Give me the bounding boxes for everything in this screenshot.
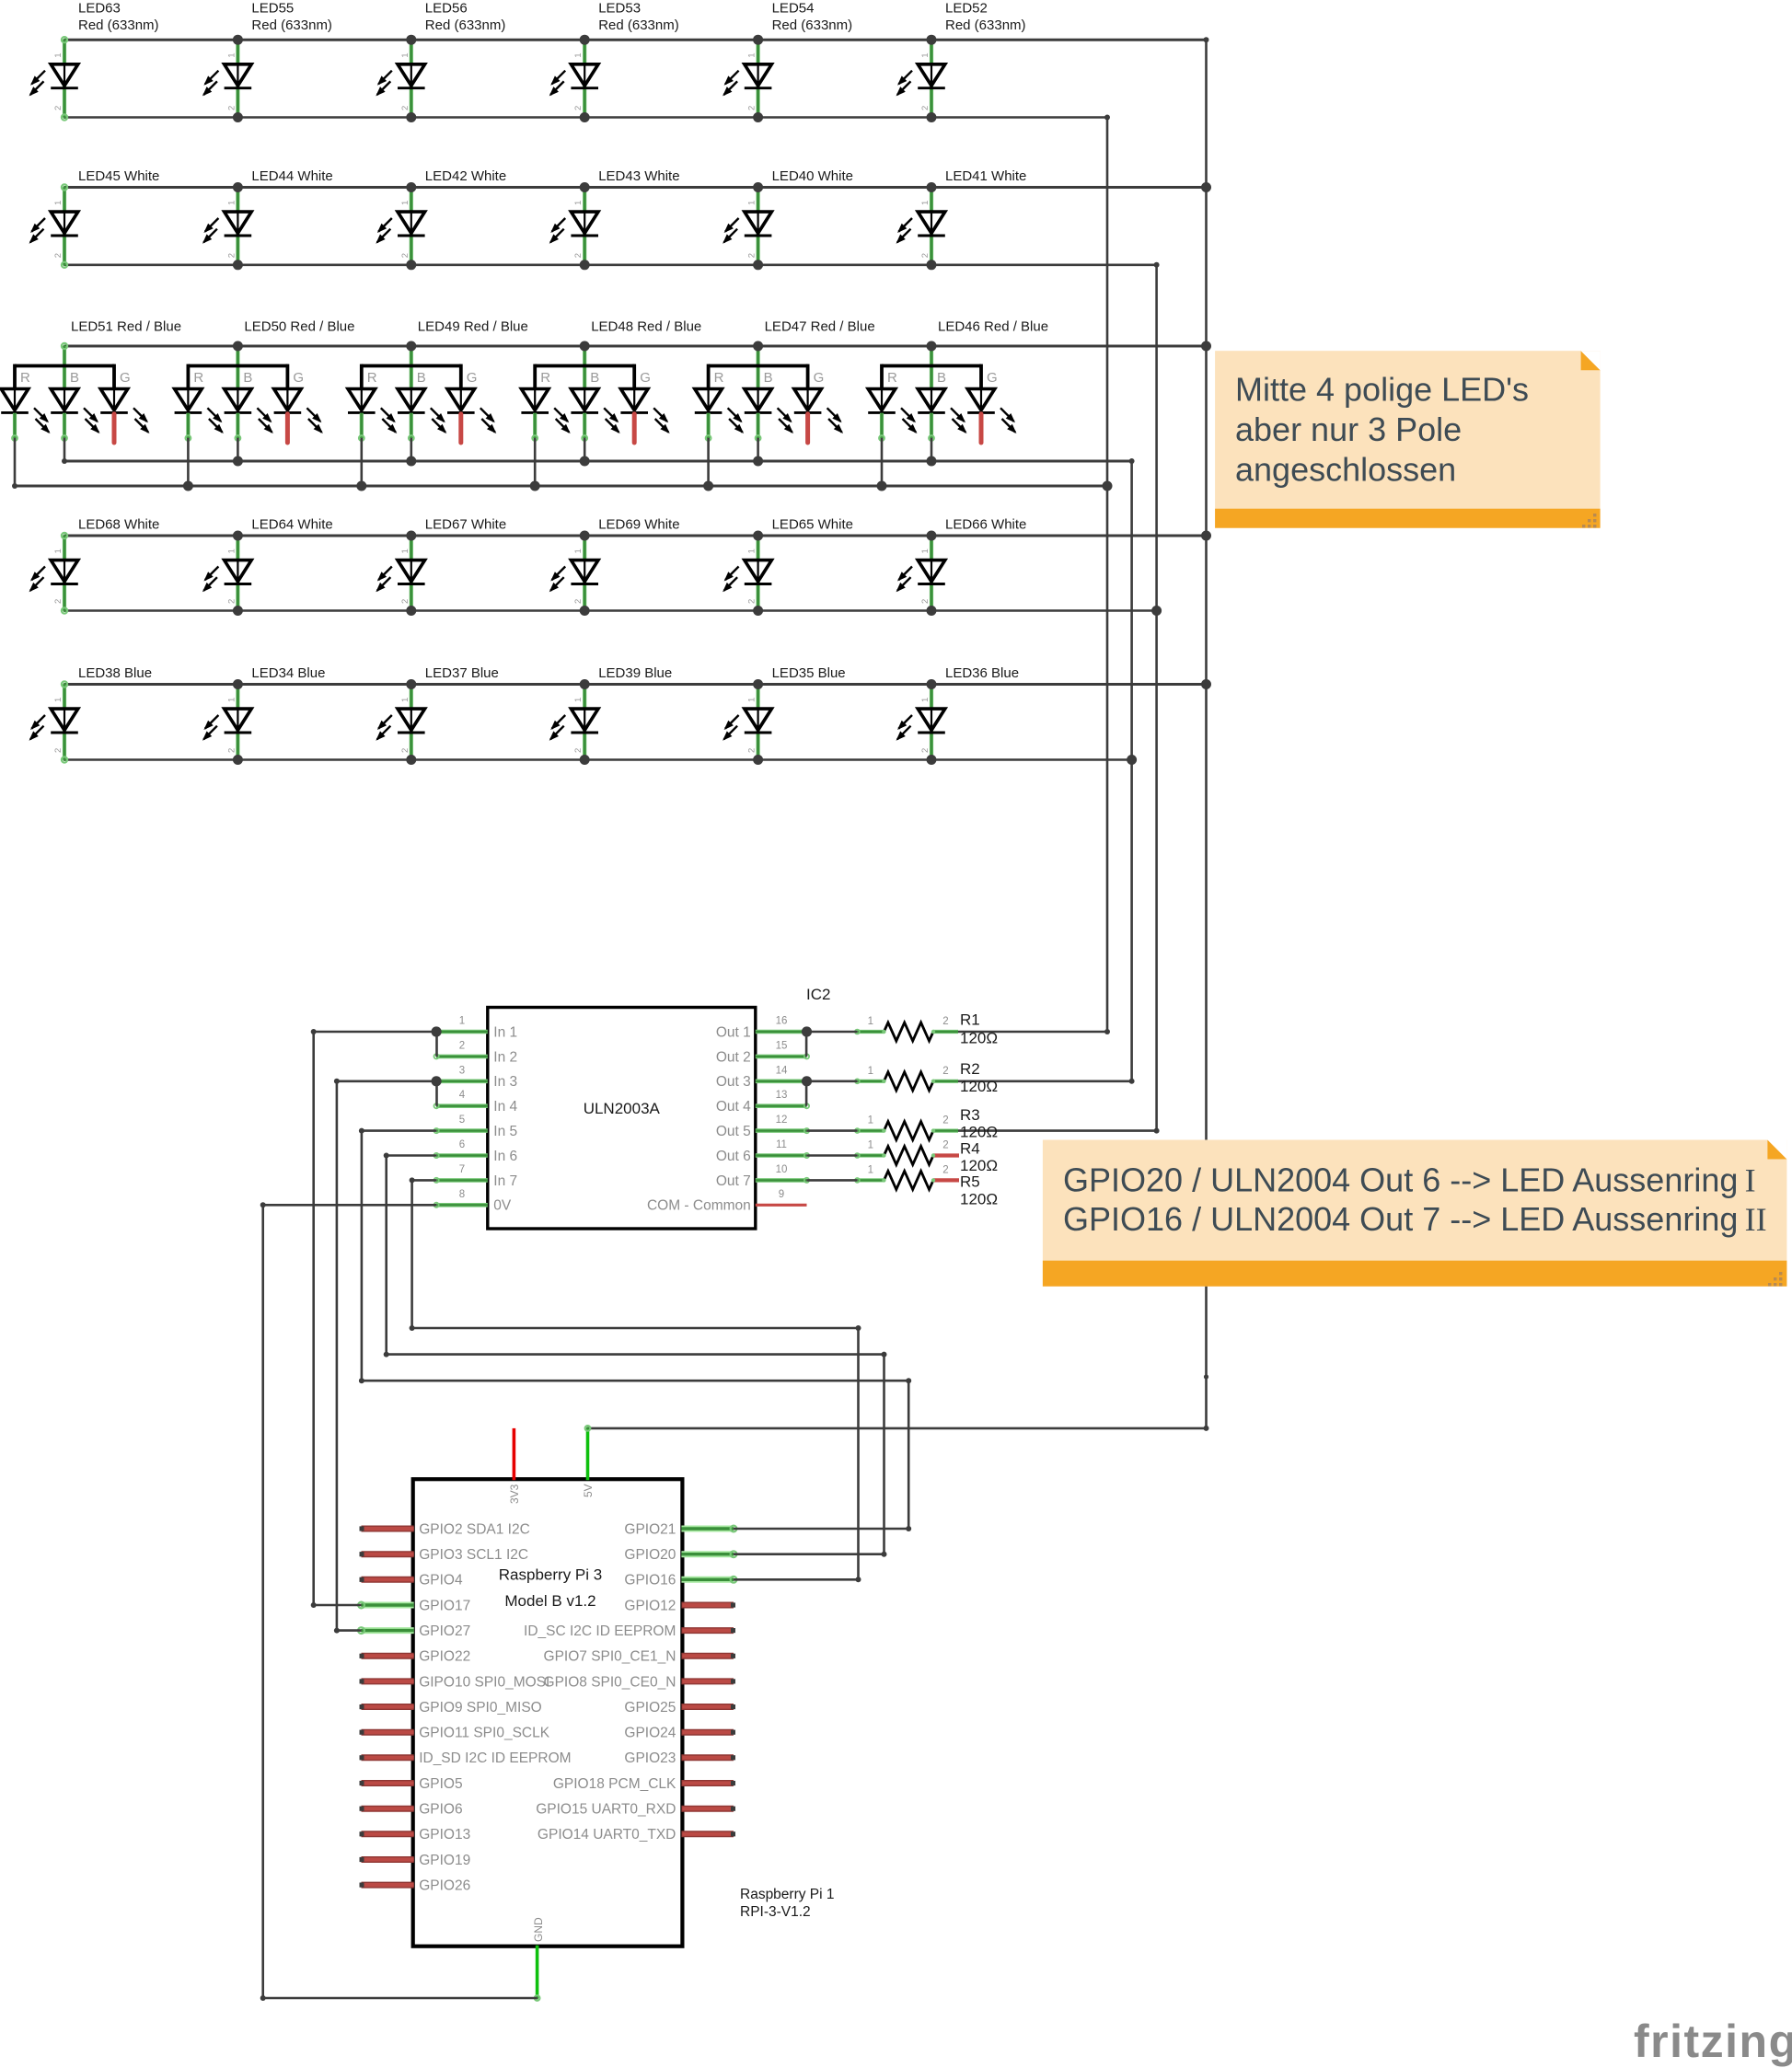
junction LED53 anode / top bus <box>580 35 590 45</box>
svg-text:GPIO2 SDA1 I2C: GPIO2 SDA1 I2C <box>419 1521 530 1537</box>
svg-text:IC2: IC2 <box>806 986 830 1003</box>
svg-text:8: 8 <box>459 1189 465 1200</box>
resistor R5 120Ω <box>855 1171 959 1189</box>
node bend In6 wire <box>882 1552 887 1557</box>
pin RPi GPIO25 leg (unrouted) <box>681 1704 734 1710</box>
wire In1 to GPIO17 <box>314 1031 436 1034</box>
svg-text:1: 1 <box>400 52 410 57</box>
svg-text:G: G <box>293 370 304 386</box>
pin 5V leg <box>586 1428 590 1480</box>
node bend 0V wire b <box>260 1995 266 2001</box>
svg-text:ULN2003A: ULN2003A <box>584 1100 661 1117</box>
junction blue net / row5 bottom bus <box>1127 755 1137 765</box>
svg-text:LED52: LED52 <box>945 1 988 17</box>
junction LED37 anode / top bus <box>406 679 416 689</box>
node bend In5 wire <box>906 1378 911 1383</box>
note 2 (GPIO20/GPIO16 mapping) <box>1043 1140 1787 1287</box>
svg-text:LED69 White: LED69 White <box>598 517 679 533</box>
pin RPi GPIO11 SPI0_SCLK leg (unrouted) <box>362 1729 414 1736</box>
svg-text:GND: GND <box>532 1917 545 1942</box>
svg-text:Out 1: Out 1 <box>716 1024 751 1040</box>
junction LED35 cathode / bottom bus <box>753 755 763 765</box>
svg-text:LED54: LED54 <box>772 1 815 17</box>
LED LED64 White <box>202 536 251 611</box>
svg-text:1: 1 <box>573 698 584 702</box>
op-amp IC2 ULN2003A body <box>488 1008 756 1230</box>
svg-text:In 2: In 2 <box>493 1049 517 1065</box>
junction LED42 cathode / bottom bus <box>406 260 416 270</box>
svg-text:Red (633nm): Red (633nm) <box>598 17 679 33</box>
pin IC2 In 6 leg <box>436 1153 488 1158</box>
svg-text:2: 2 <box>400 599 410 604</box>
pin RPi GPIO20 leg <box>681 1551 734 1557</box>
wire row5 top bus <box>64 683 1207 686</box>
LED LED38 Blue <box>29 681 78 762</box>
svg-text:GPIO9 SPI0_MISO: GPIO9 SPI0_MISO <box>419 1700 542 1716</box>
svg-text:Out 3: Out 3 <box>716 1074 751 1090</box>
svg-text:GPIO18 PCM_CLK: GPIO18 PCM_CLK <box>553 1776 676 1792</box>
wire tie Out3-Out4 <box>805 1081 808 1106</box>
svg-text:GPIO14 UART0_TXD: GPIO14 UART0_TXD <box>538 1827 676 1843</box>
pin RPi GPIO7 SPI0_CE1_N leg (unrouted) <box>681 1653 734 1659</box>
wire net ANODE/5V vertical (all LED anodes) <box>1205 40 1208 1428</box>
pin RPi ID_SD I2C ID EEPROM leg (unrouted) <box>362 1754 414 1761</box>
node bend blue net bottom <box>1129 1079 1135 1084</box>
junction LED56 cathode / bottom bus <box>406 112 416 122</box>
wire tie Out1-Out2 <box>805 1032 808 1057</box>
pin GND leg <box>536 1946 539 1998</box>
svg-text:12: 12 <box>776 1115 788 1126</box>
junction In3 tie <box>432 1076 442 1086</box>
pin RPi GPIO9 SPI0_MISO leg (unrouted) <box>362 1704 414 1710</box>
resistor R3 120Ω <box>855 1122 958 1140</box>
wire LED50 R cathode to red bus <box>187 438 190 486</box>
svg-text:2: 2 <box>747 748 757 753</box>
pin IC2 Out 7 leg <box>756 1178 807 1183</box>
LED LED43 White <box>549 188 598 265</box>
wire LED47 R cathode to red bus <box>707 438 710 486</box>
svg-text:1: 1 <box>920 549 931 553</box>
svg-text:Red (633nm): Red (633nm) <box>425 17 506 33</box>
svg-text:LED44 White: LED44 White <box>251 168 332 184</box>
svg-text:LED38 Blue: LED38 Blue <box>78 665 152 681</box>
svg-text:B: B <box>70 370 79 386</box>
svg-text:2: 2 <box>942 1164 948 1175</box>
pin 3V3 leg (unrouted) <box>513 1428 516 1480</box>
svg-text:LED51 Red / Blue: LED51 Red / Blue <box>71 319 181 335</box>
svg-text:GPIO8 SPI0_CE0_N: GPIO8 SPI0_CE0_N <box>544 1674 676 1690</box>
wire tie In3-In4 <box>435 1081 438 1106</box>
pin RPi GIPO10 SPI0_MOSI leg (unrouted) <box>362 1678 414 1684</box>
node bend 0V wire a <box>260 1202 266 1207</box>
svg-text:Out 4: Out 4 <box>716 1099 751 1115</box>
svg-text:5V: 5V <box>582 1484 595 1497</box>
LED LED45 White <box>29 184 78 268</box>
svg-text:Red (633nm): Red (633nm) <box>945 17 1026 33</box>
junction LED42 anode / top bus <box>406 182 416 192</box>
LED LED47 Red / Blue (RGB) <box>695 346 843 443</box>
note 1 (Mitte 4 polige LEDs) <box>1215 351 1601 528</box>
junction LED49 R / red bus <box>356 481 366 491</box>
svg-text:1: 1 <box>400 549 410 553</box>
junction LED34 cathode / bottom bus <box>233 755 243 765</box>
svg-text:GPIO20 / ULN2004 Out 6 --> LED: GPIO20 / ULN2004 Out 6 --> LED Aussenrin… <box>1063 1161 1756 1199</box>
junction LED37 cathode / bottom bus <box>406 755 416 765</box>
svg-text:G: G <box>987 370 998 386</box>
svg-text:GPIO17: GPIO17 <box>419 1598 470 1613</box>
junction Out1 tie <box>802 1026 812 1036</box>
node bend white net top <box>1154 262 1160 268</box>
pin RPi GPIO18 PCM_CLK leg (unrouted) <box>681 1780 734 1786</box>
node bend anode net top <box>1204 37 1209 42</box>
svg-text:2: 2 <box>573 253 584 258</box>
pin RPi GPIO23 leg (unrouted) <box>681 1754 734 1761</box>
svg-text:LED47 Red / Blue: LED47 Red / Blue <box>765 319 875 335</box>
junction LED67 anode / top bus <box>406 531 416 541</box>
pin RPi GPIO22 leg (unrouted) <box>362 1653 414 1659</box>
LED LED39 Blue <box>549 685 598 760</box>
junction LED39 anode / top bus <box>580 679 590 689</box>
svg-text:2: 2 <box>573 599 584 604</box>
svg-text:LED66 White: LED66 White <box>945 517 1026 533</box>
svg-text:1: 1 <box>920 52 931 57</box>
wire 0V to GND <box>263 1204 436 1207</box>
svg-text:1: 1 <box>868 1164 873 1175</box>
LED LED36 Blue <box>896 685 945 760</box>
LED LED40 White <box>723 188 771 265</box>
svg-text:Red (633nm): Red (633nm) <box>772 17 853 33</box>
wire LED47 B cathode to blue bus <box>757 438 759 461</box>
svg-text:In 6: In 6 <box>493 1149 517 1164</box>
svg-text:GPIO12: GPIO12 <box>624 1598 676 1613</box>
svg-text:1: 1 <box>920 201 931 205</box>
pin IC2 Out 2 leg <box>756 1055 807 1059</box>
svg-text:2: 2 <box>53 253 64 258</box>
svg-text:GPIO16 / ULN2004 Out 7 --> LED: GPIO16 / ULN2004 Out 7 --> LED Aussenrin… <box>1063 1200 1767 1238</box>
node bend In7 wire <box>856 1577 861 1582</box>
svg-text:LED39 Blue: LED39 Blue <box>598 665 672 681</box>
pin RPi GPIO26 leg (unrouted) <box>362 1882 414 1889</box>
wire LED51 B cathode to blue bus <box>64 438 66 461</box>
junction Out3 tie <box>802 1076 812 1086</box>
svg-text:120Ω: 120Ω <box>960 1191 998 1208</box>
svg-text:LED41 White: LED41 White <box>945 168 1026 184</box>
junction LED55 anode / top bus <box>233 35 243 45</box>
svg-text:LED46 Red / Blue: LED46 Red / Blue <box>938 319 1048 335</box>
junction LED65 cathode / bottom bus <box>753 606 763 616</box>
svg-text:GPIO7 SPI0_CE1_N: GPIO7 SPI0_CE1_N <box>544 1649 676 1665</box>
junction LED50 B / blue bus <box>233 456 243 467</box>
svg-text:GIPO10 SPI0_MOSI: GIPO10 SPI0_MOSI <box>419 1674 549 1690</box>
pin RPi GPIO24 leg (unrouted) <box>681 1729 734 1736</box>
LED LED41 White <box>896 188 945 265</box>
junction LED69 anode / top bus <box>580 531 590 541</box>
junction LED54 anode / top bus <box>753 35 763 45</box>
svg-text:GPIO23: GPIO23 <box>624 1750 676 1766</box>
pin RPi GPIO14 UART0_TXD leg (unrouted) <box>681 1831 734 1837</box>
pin RPi GPIO15 UART0_RXD leg (unrouted) <box>681 1806 734 1812</box>
svg-text:R: R <box>20 370 30 386</box>
pin IC2 Out 5 leg <box>756 1128 807 1133</box>
junction LED48 B / blue bus <box>580 456 590 467</box>
svg-text:GPIO27: GPIO27 <box>419 1623 470 1639</box>
svg-text:2: 2 <box>942 1016 948 1027</box>
svg-text:Mitte 4 polige LED's: Mitte 4 polige LED's <box>1235 371 1529 409</box>
svg-text:GPIO5: GPIO5 <box>419 1776 462 1792</box>
junction LED53 cathode / bottom bus <box>580 112 590 122</box>
LED LED69 White <box>549 536 598 611</box>
wire row4 bottom bus <box>64 609 1157 612</box>
junction LED40 cathode / bottom bus <box>753 260 763 270</box>
junction In1 tie <box>432 1026 442 1036</box>
svg-text:GPIO25: GPIO25 <box>624 1700 676 1716</box>
svg-text:GPIO26: GPIO26 <box>419 1878 470 1894</box>
junction LED44 anode / top bus <box>233 182 243 192</box>
svg-text:LED63: LED63 <box>78 1 121 17</box>
svg-text:LED48 Red / Blue: LED48 Red / Blue <box>591 319 701 335</box>
pin IC2 In 5 leg <box>436 1128 488 1133</box>
svg-text:1: 1 <box>53 549 64 553</box>
pin IC2 Out 3 leg <box>756 1080 807 1084</box>
node bend In6 wire <box>384 1352 389 1357</box>
svg-text:LED45 White: LED45 White <box>78 168 159 184</box>
pin IC2 In 3 leg <box>436 1080 488 1084</box>
node bend In7 wire <box>410 1177 415 1183</box>
svg-text:R5: R5 <box>960 1173 980 1191</box>
wire LED50 B cathode to blue bus <box>237 438 239 461</box>
pin RPi GPIO17 leg <box>362 1602 414 1609</box>
svg-text:7: 7 <box>459 1164 465 1175</box>
svg-text:B: B <box>243 370 252 386</box>
svg-text:GPIO11 SPI0_SCLK: GPIO11 SPI0_SCLK <box>419 1726 550 1741</box>
svg-text:16: 16 <box>776 1016 788 1027</box>
svg-text:2: 2 <box>226 253 237 258</box>
svg-text:R4: R4 <box>960 1140 980 1158</box>
node bend In3 wire a <box>334 1079 340 1084</box>
svg-text:GPIO21: GPIO21 <box>624 1521 676 1537</box>
svg-text:In 4: In 4 <box>493 1099 517 1115</box>
node bend In6 wire <box>384 1153 389 1159</box>
svg-text:13: 13 <box>776 1090 788 1101</box>
svg-text:2: 2 <box>942 1140 948 1151</box>
junction LED35 anode / top bus <box>753 679 763 689</box>
svg-text:R: R <box>714 370 724 386</box>
svg-text:Red (633nm): Red (633nm) <box>78 17 159 33</box>
junction LED54 cathode / bottom bus <box>753 112 763 122</box>
node bend red net top <box>1104 115 1110 121</box>
wire LED46 B cathode to blue bus <box>931 438 933 461</box>
wire Out to R1 <box>807 1031 858 1034</box>
resistor R1 120Ω <box>855 1022 958 1041</box>
svg-text:1: 1 <box>747 52 757 57</box>
pin RPi GPIO3 SCL1 I2C leg (unrouted) <box>362 1551 414 1557</box>
wire row2 top bus <box>64 186 1207 189</box>
svg-text:2: 2 <box>226 748 237 753</box>
wire Out to R5 <box>807 1179 858 1182</box>
junction LED43 anode / top bus <box>580 182 590 192</box>
junction LED46 R / red bus <box>877 481 887 491</box>
svg-text:1: 1 <box>400 201 410 205</box>
svg-text:120Ω: 120Ω <box>960 1030 998 1047</box>
svg-text:G: G <box>814 370 825 386</box>
svg-text:11: 11 <box>776 1139 787 1150</box>
pin IC2 Out 6 leg <box>756 1153 807 1158</box>
junction LED47 anode / top bus <box>753 341 763 352</box>
svg-text:2: 2 <box>747 253 757 258</box>
junction LED55 cathode / bottom bus <box>233 112 243 122</box>
junction LED43 cathode / bottom bus <box>580 260 590 270</box>
svg-text:Model B v1.2: Model B v1.2 <box>504 1592 595 1610</box>
node bend In5 wire <box>359 1128 364 1134</box>
junction LED47 B / blue bus <box>753 456 763 467</box>
LED LED56 Red (633nm) <box>376 40 424 117</box>
transistor RPI1 Raspberry Pi 3 body <box>413 1479 683 1947</box>
pin RPi GPIO2 SDA1 I2C leg (unrouted) <box>362 1526 414 1532</box>
svg-text:R: R <box>193 370 203 386</box>
node bend In5 wire <box>359 1378 364 1383</box>
svg-text:LED67 White: LED67 White <box>425 517 506 533</box>
wire RGB row top bus <box>64 345 1207 348</box>
svg-text:1: 1 <box>747 549 757 553</box>
svg-text:2: 2 <box>53 106 64 110</box>
junction LED56 anode / top bus <box>406 35 416 45</box>
wire LED48 B cathode to blue bus <box>584 438 586 461</box>
svg-text:LED49 Red / Blue: LED49 Red / Blue <box>418 319 528 335</box>
pin RPi GPIO6 leg (unrouted) <box>362 1806 414 1812</box>
junction white net / row4 bottom bus <box>1151 606 1162 616</box>
junction LED49 B / blue bus <box>406 456 416 467</box>
svg-text:GPIO24: GPIO24 <box>624 1726 676 1741</box>
pin IC2 Out 4 leg <box>756 1103 807 1108</box>
svg-text:RPI-3-V1.2: RPI-3-V1.2 <box>740 1904 811 1920</box>
svg-text:2: 2 <box>920 253 931 258</box>
svg-text:2: 2 <box>400 748 410 753</box>
svg-text:5: 5 <box>459 1115 465 1126</box>
svg-text:LED42 White: LED42 White <box>425 168 506 184</box>
wire Out to R4 <box>807 1154 858 1157</box>
wire In5 to GPIO21 <box>362 1129 436 1132</box>
svg-text:1: 1 <box>53 201 64 205</box>
svg-text:15: 15 <box>776 1040 788 1051</box>
svg-text:Out 5: Out 5 <box>716 1124 751 1139</box>
svg-text:2: 2 <box>747 599 757 604</box>
svg-text:1: 1 <box>920 698 931 702</box>
svg-text:GPIO20: GPIO20 <box>624 1547 676 1563</box>
svg-text:1: 1 <box>747 698 757 702</box>
node bend In6 wire <box>882 1352 887 1357</box>
node bend anode net bottom <box>1204 1426 1209 1431</box>
junction LED66 cathode / bottom bus <box>927 606 937 616</box>
junction LED52 cathode / bottom bus <box>927 112 937 122</box>
svg-text:2: 2 <box>53 599 64 604</box>
svg-text:In 1: In 1 <box>493 1024 517 1040</box>
svg-text:120Ω: 120Ω <box>960 1157 998 1174</box>
junction LED41 anode / top bus <box>927 182 937 192</box>
svg-text:LED34 Blue: LED34 Blue <box>251 665 325 681</box>
svg-text:G: G <box>120 370 131 386</box>
svg-text:G: G <box>467 370 478 386</box>
svg-text:R3: R3 <box>960 1106 980 1124</box>
svg-text:Out 7: Out 7 <box>716 1173 751 1189</box>
svg-text:1: 1 <box>53 698 64 702</box>
svg-text:aber nur 3 Pole: aber nur 3 Pole <box>1235 410 1462 448</box>
svg-text:1: 1 <box>573 549 584 553</box>
svg-text:1: 1 <box>226 201 237 205</box>
junction LED44 cathode / bottom bus <box>233 260 243 270</box>
LED LED42 White <box>376 188 424 265</box>
pin RPi GPIO12 leg (unrouted) <box>681 1602 734 1609</box>
LED LED49 Red / Blue (RGB) <box>348 346 496 443</box>
LED LED65 White <box>723 536 771 611</box>
svg-text:4: 4 <box>459 1090 466 1101</box>
pin IC2 In 7 leg <box>436 1178 488 1183</box>
node bend In3 wire b <box>334 1628 340 1634</box>
node bend In7 wire <box>856 1325 861 1331</box>
svg-text:1: 1 <box>226 698 237 702</box>
svg-text:6: 6 <box>459 1139 465 1150</box>
junction LED65 anode / top bus <box>753 531 763 541</box>
junction LED40 anode / top bus <box>753 182 763 192</box>
pin RPi GPIO4 leg (unrouted) <box>362 1577 414 1583</box>
junction LED64 cathode / bottom bus <box>233 606 243 616</box>
svg-text:ID_SD I2C ID EEPROM: ID_SD I2C ID EEPROM <box>419 1750 571 1766</box>
junction LED52 anode / top bus <box>927 35 937 45</box>
junction LED46 B / blue bus <box>927 456 937 467</box>
wire LED46 R cathode to red bus <box>881 438 884 486</box>
svg-text:LED68 White: LED68 White <box>78 517 159 533</box>
svg-text:B: B <box>764 370 773 386</box>
svg-text:2: 2 <box>573 748 584 753</box>
svg-text:LED40 White: LED40 White <box>772 168 853 184</box>
svg-text:1: 1 <box>573 201 584 205</box>
svg-text:1: 1 <box>573 52 584 57</box>
svg-text:2: 2 <box>920 106 931 110</box>
wire Out to R2 <box>807 1080 858 1083</box>
svg-text:Out 6: Out 6 <box>716 1149 751 1164</box>
svg-text:2: 2 <box>942 1066 948 1077</box>
junction LED67 cathode / bottom bus <box>406 606 416 616</box>
LED LED51 Red / Blue (RGB) <box>1 343 149 443</box>
svg-text:1: 1 <box>868 1066 873 1077</box>
svg-text:Raspberry Pi 1: Raspberry Pi 1 <box>740 1887 835 1902</box>
node bend LED51 B bus start <box>62 458 67 464</box>
svg-text:GPIO3 SCL1 I2C: GPIO3 SCL1 I2C <box>419 1547 528 1563</box>
wire net RED vertical (red LED cathodes to R1) <box>1106 118 1109 1033</box>
LED LED35 Blue <box>723 685 771 760</box>
junction red net / RGB R bus <box>1103 481 1113 491</box>
pin RPi GPIO21 leg <box>681 1526 734 1532</box>
svg-text:2: 2 <box>747 106 757 110</box>
LED LED68 White <box>29 533 78 614</box>
junction LED41 cathode / bottom bus <box>927 260 937 270</box>
svg-text:COM - Common: COM - Common <box>647 1198 751 1214</box>
pin IC2 In 1 leg <box>436 1030 488 1034</box>
LED LED50 Red / Blue (RGB) <box>175 346 323 443</box>
junction anode net / row5 top bus <box>1201 679 1211 689</box>
svg-text:1: 1 <box>747 201 757 205</box>
svg-text:In 7: In 7 <box>493 1173 517 1189</box>
wire net WHITE vertical (white LED cathodes to R3) <box>1155 265 1158 1131</box>
svg-text:GPIO19: GPIO19 <box>419 1853 470 1868</box>
svg-text:1: 1 <box>459 1016 465 1027</box>
pin RPi ID_SC I2C ID EEPROM leg (unrouted) <box>681 1627 734 1634</box>
node bend white net bottom <box>1154 1128 1160 1134</box>
pin IC2 In 4 leg <box>436 1103 488 1108</box>
svg-text:2: 2 <box>920 748 931 753</box>
svg-text:14: 14 <box>776 1065 788 1076</box>
svg-text:LED53: LED53 <box>598 1 641 17</box>
LED LED37 Blue <box>376 685 424 760</box>
